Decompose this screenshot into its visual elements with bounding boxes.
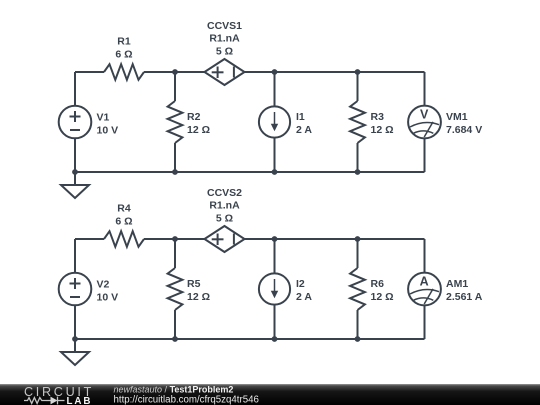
wire — [424, 138, 426, 172]
logo resistor squiggle — [24, 398, 46, 404]
current source I2 — [259, 273, 290, 304]
wire — [174, 310, 176, 339]
svg-text:CCVS2: CCVS2 — [207, 187, 242, 199]
svg-text:V: V — [420, 108, 429, 122]
junction — [355, 336, 361, 342]
svg-text:6 Ω: 6 Ω — [115, 216, 132, 228]
svg-text:http://circuitlab.com/cfrq5zq4: http://circuitlab.com/cfrq5zq4tr546 — [114, 395, 259, 405]
wire — [274, 138, 276, 172]
voltmeter VM1 — [408, 106, 441, 139]
ammeter AM1 — [408, 273, 441, 306]
voltage source V2 — [59, 273, 92, 306]
svg-text:12 Ω: 12 Ω — [187, 124, 210, 136]
svg-text:R3: R3 — [371, 111, 385, 123]
svg-text:R1: R1 — [117, 36, 131, 48]
svg-text:CCVS1: CCVS1 — [207, 20, 242, 32]
wire — [357, 72, 359, 101]
footer bar — [0, 384, 540, 405]
svg-text:A: A — [420, 275, 429, 289]
resistor R3 — [350, 101, 365, 143]
svg-text:AM1: AM1 — [446, 278, 468, 290]
resistor R1 — [104, 64, 144, 80]
svg-text:5 Ω: 5 Ω — [216, 212, 233, 224]
junction (ground node) — [72, 336, 78, 342]
svg-text:R1.nA: R1.nA — [209, 200, 240, 212]
svg-text:newfastauto / Test1Problem2: newfastauto / Test1Problem2 — [114, 384, 234, 394]
svg-text:2 A: 2 A — [296, 291, 312, 303]
wire — [174, 143, 176, 172]
svg-text:R2: R2 — [187, 111, 201, 123]
wire — [357, 310, 359, 339]
svg-text:R5: R5 — [187, 278, 201, 290]
junction — [355, 169, 361, 175]
svg-text:I1: I1 — [296, 111, 305, 123]
junction — [355, 236, 361, 242]
svg-text:12 Ω: 12 Ω — [187, 291, 210, 303]
svg-text:V1: V1 — [97, 112, 110, 124]
wire — [74, 305, 76, 339]
controlled source CCVS2 (CCVS) — [205, 226, 245, 252]
svg-text:2 A: 2 A — [296, 124, 312, 136]
svg-text:6 Ω: 6 Ω — [115, 49, 132, 61]
svg-text:5 Ω: 5 Ω — [216, 45, 233, 57]
svg-text:10 V: 10 V — [97, 292, 119, 304]
wire — [75, 171, 425, 173]
svg-text:R6: R6 — [371, 278, 385, 290]
wire — [74, 138, 76, 172]
resistor R4 — [104, 231, 144, 247]
resistor R6 — [350, 268, 365, 310]
wire — [357, 239, 359, 268]
svg-text:VM1: VM1 — [446, 111, 468, 123]
wire — [74, 239, 76, 273]
wire — [75, 238, 104, 240]
ground — [61, 172, 89, 198]
logo diode — [51, 397, 58, 405]
resistor R5 — [168, 268, 183, 310]
wire — [274, 239, 276, 273]
current source I1 — [259, 106, 290, 137]
svg-text:R4: R4 — [117, 203, 131, 215]
wire — [274, 72, 276, 106]
resistor R2 — [168, 101, 183, 143]
svg-text:12 Ω: 12 Ω — [371, 124, 394, 136]
svg-text:R1.nA: R1.nA — [209, 33, 240, 45]
svg-text:LAB: LAB — [67, 396, 93, 405]
controlled source CCVS1 (CCVS) — [205, 59, 245, 85]
svg-text:7.684 V: 7.684 V — [446, 124, 482, 136]
wire — [357, 143, 359, 172]
junction — [272, 236, 278, 242]
wire — [245, 238, 425, 240]
wire — [74, 72, 76, 106]
wire — [274, 305, 276, 339]
junction (ground node) — [72, 169, 78, 175]
junction — [172, 169, 178, 175]
wire — [75, 71, 104, 73]
junction — [355, 69, 361, 75]
wire — [174, 72, 176, 101]
ground — [61, 339, 89, 365]
wire — [144, 71, 205, 73]
svg-text:12 Ω: 12 Ω — [371, 291, 394, 303]
junction — [272, 69, 278, 75]
wire — [174, 239, 176, 268]
wire — [75, 338, 425, 340]
svg-text:2.561 A: 2.561 A — [446, 291, 483, 303]
junction — [172, 236, 178, 242]
voltage source V1 — [59, 106, 92, 139]
junction — [172, 69, 178, 75]
wire — [245, 71, 425, 73]
wire — [424, 72, 426, 106]
svg-text:V2: V2 — [97, 279, 110, 291]
svg-text:I2: I2 — [296, 278, 305, 290]
wire — [424, 305, 426, 339]
junction — [272, 336, 278, 342]
junction — [172, 336, 178, 342]
svg-text:10 V: 10 V — [97, 125, 119, 137]
wire — [424, 239, 426, 273]
wire — [144, 238, 205, 240]
junction — [272, 169, 278, 175]
